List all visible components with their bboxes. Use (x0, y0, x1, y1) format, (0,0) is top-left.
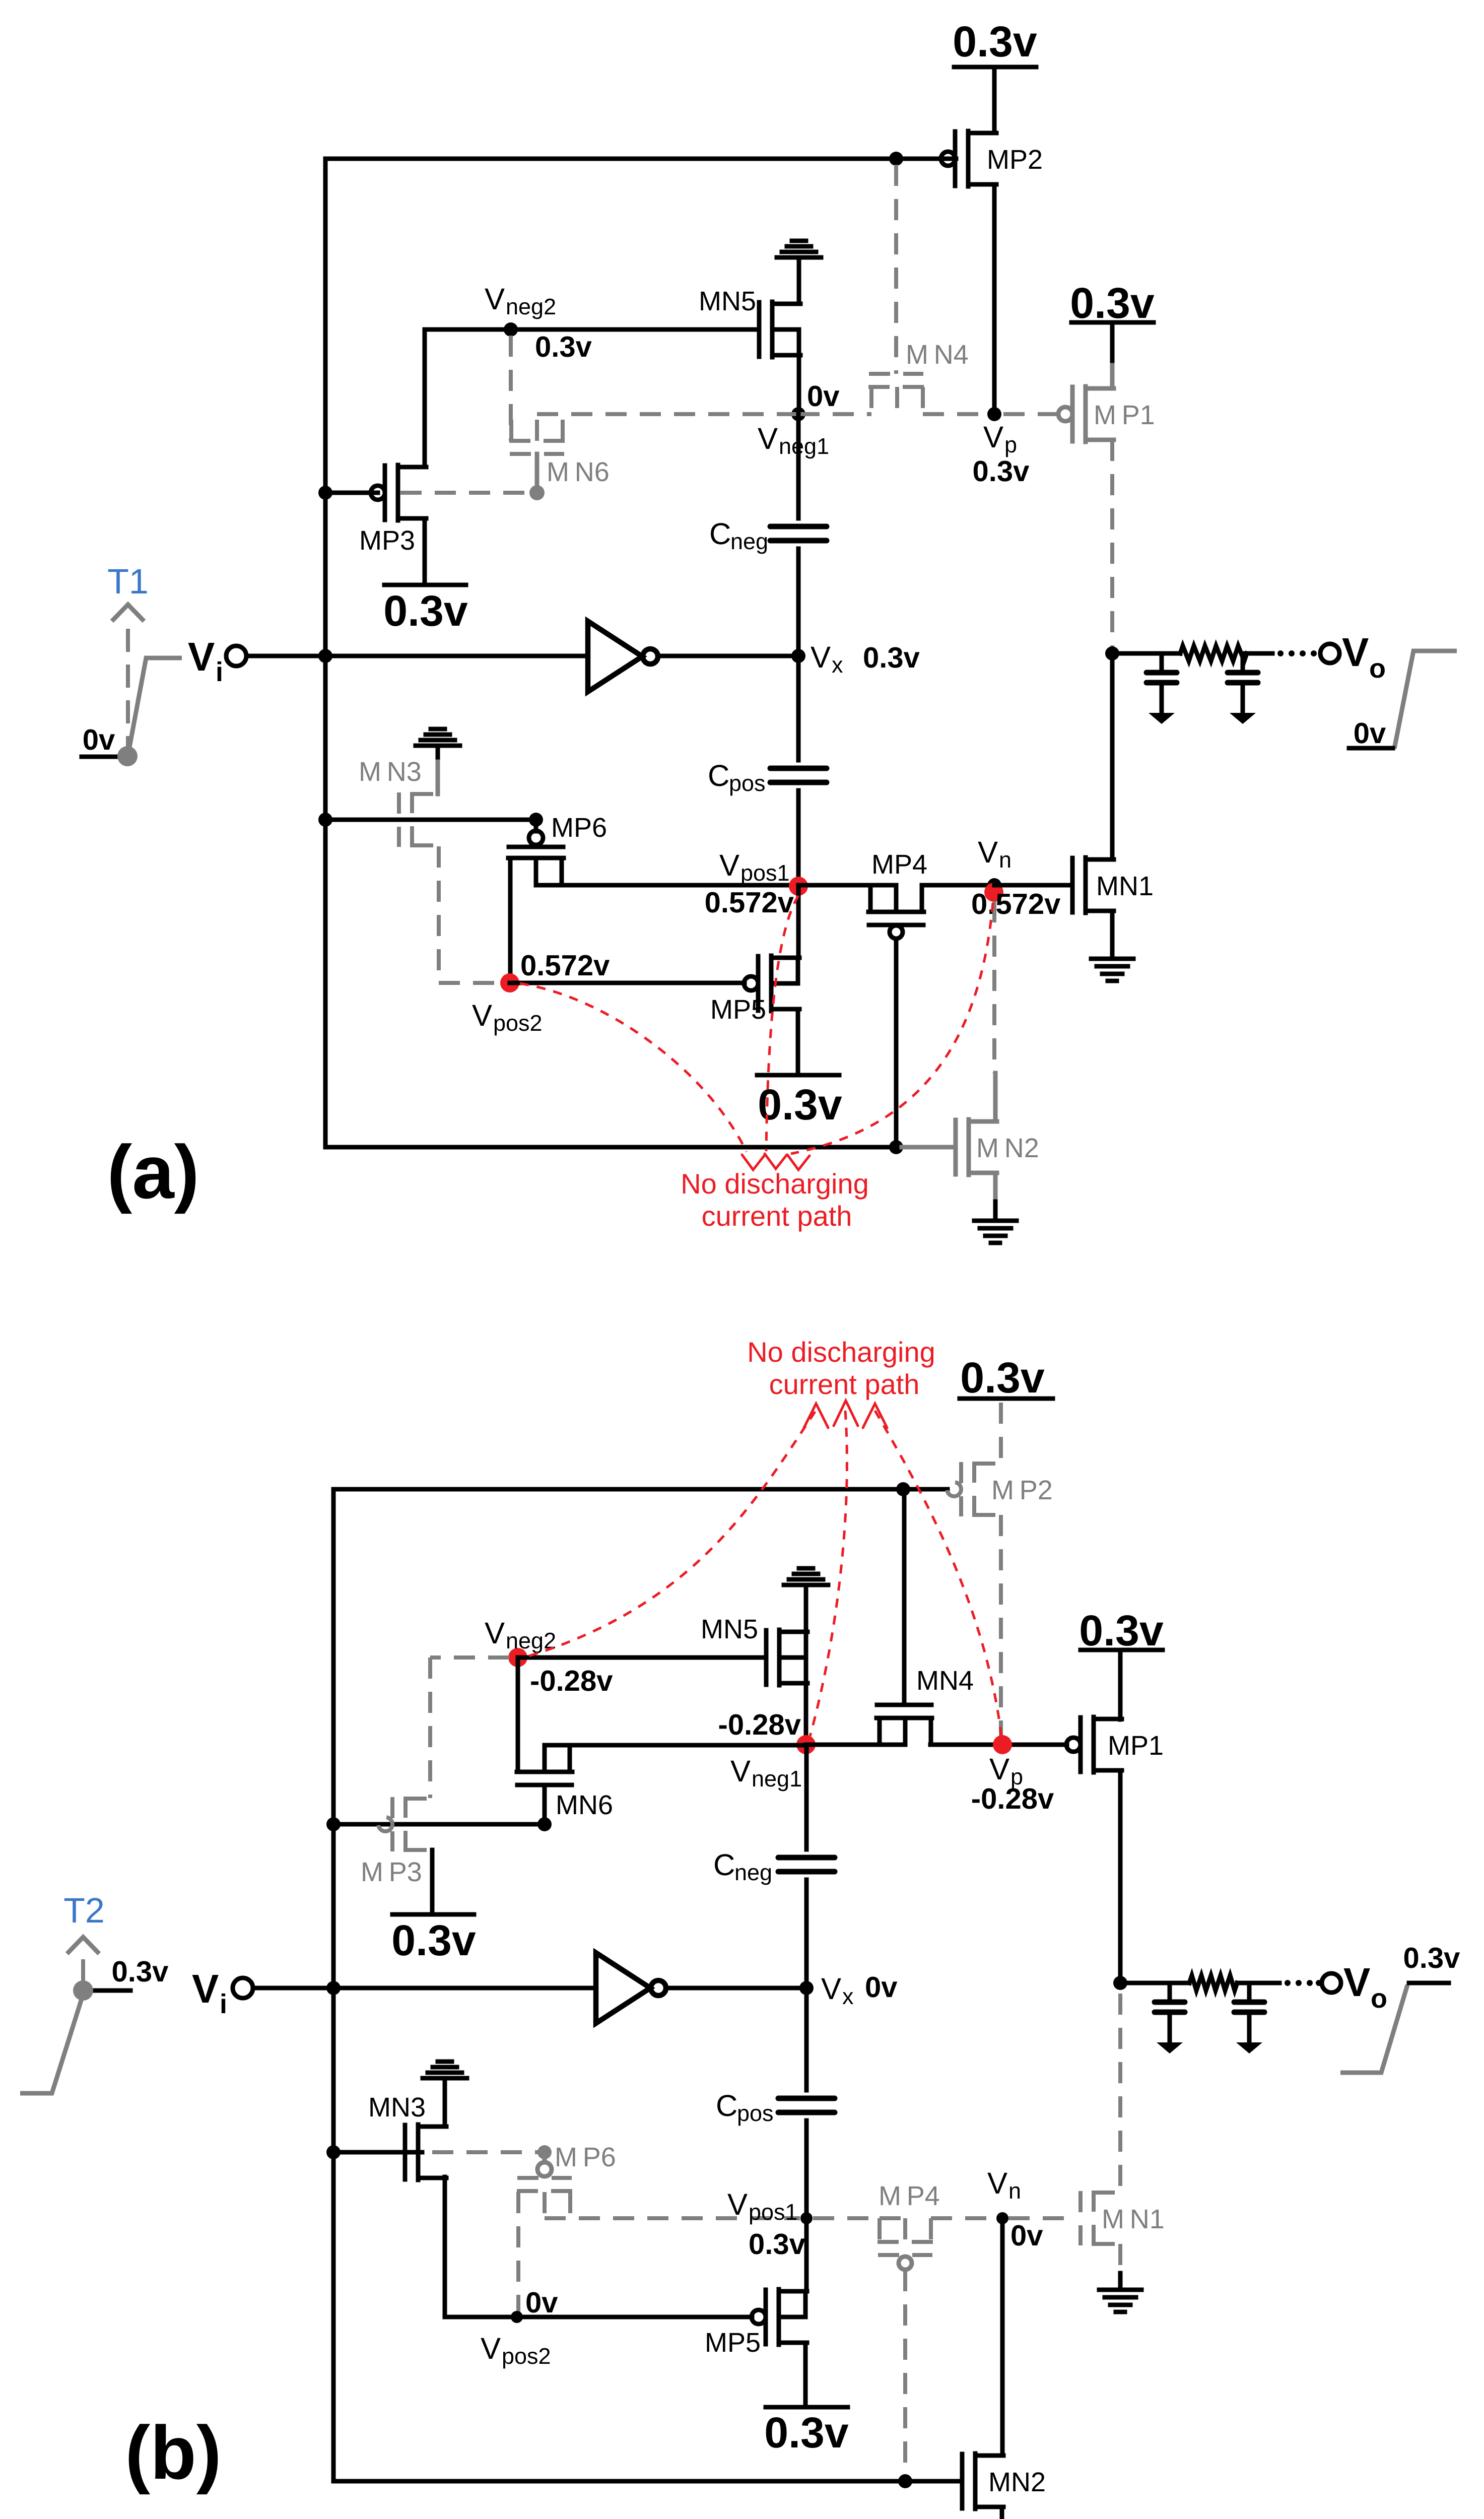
wire dashed Vneg2 down to MP3 (b) (428, 1658, 432, 1798)
svg-text:MP4: MP4 (871, 849, 927, 880)
svg-text:M P3: M P3 (361, 1857, 422, 1887)
node MP4 gate junction (a) (889, 1140, 903, 1154)
svg-text:MP6: MP6 (551, 813, 607, 843)
wire MP2 drain to Vp (a) (992, 184, 997, 414)
terminal Vo (a) (1320, 644, 1339, 663)
capacitor Cneg (b) (778, 1858, 835, 1872)
svg-text:V: V (987, 2166, 1007, 2200)
wire bottom rail (a) (325, 1145, 896, 1150)
svg-text:(b): (b) (125, 2410, 222, 2495)
wire Vneg1 rail left (b) (546, 1743, 806, 1748)
transistor MP2 (a) (941, 131, 996, 186)
svg-text:C: C (713, 1848, 735, 1882)
svg-text:T1: T1 (107, 562, 149, 601)
node Vn red (a) (984, 883, 1003, 902)
wire MN6 gate stub (a) (535, 454, 539, 486)
svg-text:0.572v: 0.572v (971, 888, 1060, 920)
wire gate rail MN3-MP6 (a) (325, 818, 536, 822)
wire MN2 source gray (a) (993, 1173, 998, 1202)
figure (a) (82, 18, 1457, 1243)
node Vp (a) (987, 407, 1001, 421)
svg-text:-0.28v: -0.28v (530, 1665, 613, 1697)
transistor MP4 (a) (868, 885, 924, 939)
wire Vneg1 to Cneg (b) (804, 1745, 809, 1849)
wire Vx to Cpos (a) (796, 656, 801, 760)
svg-text:0.3v: 0.3v (535, 330, 592, 363)
ground above MN3 (b) (423, 2062, 467, 2078)
svg-text:V: V (989, 1752, 1009, 1786)
wire bottom rail (b) (333, 2479, 962, 2484)
input waveform (b) (20, 1993, 84, 2093)
svg-text:V: V (730, 1754, 751, 1788)
node Vx (a) (791, 649, 805, 663)
transistor MN5 (b) (766, 1630, 807, 1685)
node MN3 gate junction (b) (326, 2145, 341, 2159)
node input start (a) (117, 746, 138, 766)
ground MN1 (b) (1099, 2290, 1141, 2312)
figure (b) (20, 1336, 1460, 2519)
svg-text:M N6: M N6 (547, 457, 610, 487)
wire Vi to inverter (a) (247, 654, 587, 658)
svg-text:0v: 0v (807, 380, 840, 413)
svg-text:0.3v: 0.3v (383, 587, 468, 635)
output waveform (a) (1394, 651, 1457, 749)
terminal Vi (b) (233, 1978, 253, 1998)
wire MP3 gate (a) (325, 491, 378, 495)
svg-text:V: V (811, 640, 831, 674)
node output (a) (1105, 646, 1119, 660)
wire dashed gate rail to MP6 (b) (432, 2150, 538, 2154)
svg-text:0.572v: 0.572v (520, 949, 610, 982)
svg-text:0v: 0v (865, 1971, 898, 2004)
wire MN1 source black (b) (1118, 2273, 1123, 2289)
capacitor Cpos (a) (770, 768, 827, 782)
wire 0v output level (a) (1349, 746, 1393, 751)
terminal Vo (b) (1322, 1973, 1341, 1993)
node Vi junction (b) (326, 1981, 341, 1995)
svg-text:0.3v: 0.3v (391, 1916, 476, 1965)
wire Vneg2 down to MN6 (b) (516, 1658, 520, 1772)
svg-text:0.3v: 0.3v (960, 1354, 1045, 1402)
wire resistor to dots (a) (1247, 651, 1272, 656)
svg-text:0.3v: 0.3v (973, 455, 1030, 488)
svg-text:0.3v: 0.3v (758, 1081, 842, 1129)
svg-text:MN6: MN6 (556, 1790, 613, 1820)
power 0.3v supply MP3 (b) (392, 1912, 474, 1917)
transistor MP6 (b) (517, 2158, 572, 2313)
svg-text:M P6: M P6 (555, 2142, 616, 2172)
wire dashed MP4 to Vn (b) (931, 2216, 996, 2220)
node MP6 gate (a) (529, 813, 543, 827)
svg-text:pos2: pos2 (493, 1010, 543, 1036)
node Vneg2 (a) (504, 322, 518, 337)
wire inverter out to Vx (b) (666, 1986, 806, 1991)
svg-text:M N4: M N4 (906, 340, 969, 370)
capacitor C2 to ground (a) (1228, 653, 1258, 724)
svg-text:V: V (472, 999, 492, 1032)
svg-text:pos: pos (729, 770, 766, 796)
wire dashed Vpos1 rail from MP6 (b) (545, 2216, 800, 2220)
svg-text:V: V (719, 848, 739, 882)
node MN3 gate junction (a) (318, 813, 332, 827)
node Vpos1 (b) (800, 2212, 813, 2224)
transistor MP3 (b) (378, 1797, 434, 1852)
wire inverter out to Vx (a) (658, 654, 798, 658)
transistor MN1 (a) (1072, 857, 1114, 913)
wire dashed MN4 gate (a) (894, 165, 898, 374)
wire Vneg2 to MN5 gate (b) (518, 1655, 766, 1660)
svg-text:MN5: MN5 (701, 1614, 758, 1644)
wire Vpos1 rail from MP6 (a) (536, 883, 798, 888)
ground MN1 (a) (1091, 959, 1133, 981)
node Vpos1 red (a) (789, 877, 808, 896)
node Vi junction (a) (318, 649, 332, 663)
capacitor C2 to ground (b) (1234, 1983, 1264, 2053)
svg-text:pos1: pos1 (749, 2199, 798, 2225)
dotted continuation (b) (1285, 1980, 1322, 1986)
wire MN3 drain-ground black (a) (436, 747, 440, 762)
wire Vneg2 left (a) (425, 327, 511, 332)
svg-text:V: V (192, 1966, 219, 2011)
wire dashed MP2 drain to Vp (b) (999, 1515, 1003, 1741)
wire dashed MN1 drain up (b) (1118, 1994, 1122, 2193)
svg-text:0.3v: 0.3v (1403, 1942, 1460, 1974)
dotted continuation (a) (1277, 650, 1317, 656)
svg-text:i: i (220, 1989, 227, 2019)
svg-text:x: x (832, 652, 843, 678)
node Vn junction (a) (987, 878, 1001, 892)
wire dashed MP1 gate (a) (1003, 412, 1059, 416)
power 0.3v supply MP5 (b) (766, 2405, 848, 2410)
wire MP2 gate (a) (941, 157, 956, 161)
wire Vn to MN1 gate (a) (994, 883, 1072, 888)
svg-text:MP3: MP3 (359, 525, 415, 556)
transistor MN2 (a) (956, 1119, 997, 1175)
wire MP1 supply stub gray (a) (1110, 365, 1115, 388)
wire Cpos to Vpos1 (a) (796, 790, 801, 885)
capacitor C1 to ground (b) (1155, 1983, 1185, 2053)
wire Vx to Cpos (b) (804, 1988, 809, 2090)
node output (b) (1113, 1976, 1127, 1990)
wire Vneg1 rail right (b) (806, 1743, 879, 1747)
wire Cpos to Vpos1 (b) (804, 2120, 809, 2218)
svg-text:V: V (758, 422, 778, 455)
node Vpos2 red (a) (500, 973, 519, 992)
wire MP3 source down (a) (423, 518, 427, 585)
annotation red arrowheads (a) (742, 1155, 764, 1170)
svg-text:MP5: MP5 (705, 2328, 761, 2358)
svg-text:0.3v: 0.3v (112, 1955, 169, 1988)
inverter (b) (596, 1953, 650, 2023)
svg-text:M P1: M P1 (1094, 400, 1155, 430)
svg-text:C: C (716, 2089, 737, 2123)
svg-text:No discharging: No discharging (681, 1168, 869, 1200)
wire gate rail left-MN6 (b) (333, 1822, 545, 1827)
transistor MN6 (a) (509, 414, 565, 454)
annotation red curve to Vneg2 (b) (529, 1412, 815, 1656)
resistor R load (a) (1180, 646, 1247, 661)
svg-text:n: n (999, 847, 1011, 873)
annotation red curve from Vpos1 (a) (766, 896, 798, 1151)
svg-text:0.3v: 0.3v (953, 18, 1037, 66)
wire output rail (b) (1120, 1981, 1189, 1985)
svg-text:neg: neg (734, 1860, 772, 1885)
svg-text:MN5: MN5 (699, 286, 756, 316)
wire dashed MP2 supply (b) (999, 1403, 1003, 1463)
transistor MP2 (b) (947, 1462, 1002, 1517)
svg-text:(a): (a) (107, 1130, 199, 1214)
wire MP5 source down (a) (796, 1009, 800, 1075)
svg-text:neg: neg (730, 528, 768, 554)
node Vneg1 (a) (791, 407, 805, 421)
svg-text:MP5: MP5 (710, 995, 766, 1025)
transistor MP5 (b) (752, 2289, 807, 2345)
transistor MP1 (a) (1058, 386, 1114, 442)
wire MP1 supply stub (b) (1118, 1650, 1123, 1719)
transistor MN3 (b) (405, 2125, 446, 2180)
transistor MN1 (b) (1081, 2191, 1122, 2246)
wire MP4 to Vn (a) (922, 883, 994, 888)
annotation red curve to Vp (b) (875, 1411, 1001, 1736)
output waveform (b) (1340, 1985, 1407, 2073)
resistor R load (b) (1189, 1975, 1237, 1991)
node MP3 gate junction (b) (326, 1817, 341, 1831)
node MN6 gate (b) (537, 1817, 552, 1831)
power 0.3v supply MP3 (a) (384, 583, 466, 587)
wire MP2 drain-supply (a) (992, 67, 997, 133)
power 0.3v supply MP5 (a) (757, 1073, 839, 1078)
svg-text:p: p (1004, 432, 1017, 457)
svg-text:MN2: MN2 (988, 2467, 1046, 2497)
svg-text:0v: 0v (525, 2286, 558, 2319)
wire 0v level mark (a) (82, 755, 129, 759)
wire rail MN4-Vp (b) (930, 1743, 1001, 1747)
svg-text:V: V (978, 835, 998, 869)
svg-text:neg2: neg2 (506, 294, 556, 319)
input waveform (a) (128, 658, 182, 753)
transistor MP3 (a) (371, 465, 426, 520)
ground above MN5 (a) (777, 241, 821, 257)
wire MP5 drain up (a) (796, 885, 801, 958)
wire dashed MP1 drain down (a) (1110, 440, 1114, 647)
inverter (a) (588, 621, 642, 692)
node MP3 gate junction (a) (318, 486, 332, 500)
annotation red arrowheads (b) (804, 1404, 828, 1428)
wire left rail (b) (331, 1489, 336, 2481)
wire MN3 drain-ground (b) (443, 2080, 447, 2127)
svg-text:M P2: M P2 (991, 1475, 1053, 1505)
wire output rail (a) (1112, 651, 1180, 656)
wire MN3 drain-ground gray (a) (436, 762, 440, 794)
svg-text:MN1: MN1 (1096, 871, 1154, 901)
wire MP3 source down black (b) (430, 1850, 435, 1914)
capacitor Cneg (a) (770, 526, 827, 541)
svg-text:o: o (1369, 653, 1386, 684)
svg-text:i: i (216, 657, 223, 687)
wire gate rail to MN3 (b) (333, 2150, 422, 2155)
arrow T2 (b) (67, 1937, 99, 1954)
node Vp red (b) (993, 1735, 1012, 1754)
wire dashed MN1 source down (b) (1118, 2244, 1122, 2273)
wire MN2 gate stub (a) (902, 1145, 956, 1150)
wire MP1 supply stub black (a) (1110, 322, 1115, 365)
ground above MN5 (b) (784, 1568, 828, 1585)
svg-text:M P4: M P4 (879, 2181, 940, 2211)
transistor MN6 (b) (517, 1745, 572, 1785)
wire MP4 gate down (a) (894, 939, 899, 1147)
wire MN5 drain-ground (a) (797, 259, 801, 304)
svg-text:current path: current path (702, 1200, 852, 1232)
wire MN2 source down (b) (1000, 2507, 1004, 2519)
svg-text:neg1: neg1 (779, 433, 829, 459)
wire top rail (a) (325, 157, 941, 161)
wire 0.3v output level (b) (1409, 1981, 1449, 1985)
wire dashed Vneg2 left (b) (430, 1655, 509, 1660)
node Vneg2 red (b) (508, 1648, 527, 1667)
wire MN5 source to Vneg1 (a) (797, 355, 801, 414)
wire Cneg to Vx (a) (796, 549, 801, 656)
wire MP1 gate (b) (1002, 1743, 1067, 1747)
wire dashed MN6 gate to MP3 (a) (400, 491, 530, 495)
svg-text:x: x (842, 1983, 854, 2009)
wire MN3 source down (b) (443, 2177, 447, 2317)
wire dashed Vpos1 to MP4 (b) (813, 2216, 879, 2220)
svg-text:V: V (1343, 1960, 1370, 2005)
wire Vpos2 to MP5 gate (a) (510, 981, 745, 985)
wire Cneg to Vx (b) (804, 1880, 809, 1988)
svg-text:pos: pos (737, 2100, 774, 2126)
wire dashed Vneg1 rail right (a) (798, 412, 871, 416)
svg-text:No discharging: No discharging (747, 1336, 935, 1368)
svg-text:M N1: M N1 (1102, 2204, 1165, 2234)
svg-text:current path: current path (769, 1368, 920, 1400)
terminal Vi (a) (226, 646, 246, 666)
svg-text:0.3v: 0.3v (764, 2409, 849, 2457)
wire Vn down to MN2 (b) (1000, 2218, 1005, 2454)
wire dashed MN3 to Vpos2 (a) (439, 981, 501, 985)
svg-text:o: o (1371, 1983, 1387, 2014)
wire Vpos1 to MP4 (a) (798, 883, 870, 888)
wire MP1 drain down (b) (1118, 1770, 1123, 1983)
transistor MP5 (a) (744, 956, 799, 1011)
svg-text:M N3: M N3 (359, 757, 422, 787)
svg-text:C: C (708, 759, 729, 792)
svg-text:V: V (485, 1616, 505, 1650)
node Vneg1 red (b) (796, 1735, 816, 1754)
wire MN2 source black (a) (993, 1202, 998, 1220)
wire resistor to dots (b) (1237, 1981, 1279, 1985)
wire dashed Vneg2 to MN6 (a) (509, 336, 513, 441)
svg-text:V: V (481, 2332, 501, 2365)
svg-text:neg1: neg1 (752, 1766, 802, 1792)
svg-text:MN3: MN3 (368, 2092, 426, 2123)
svg-text:V: V (188, 634, 215, 679)
wire Vneg2 to MN5 gate (a) (511, 327, 759, 332)
node Vx (b) (799, 1981, 814, 1995)
svg-text:V: V (485, 282, 505, 316)
svg-text:C: C (709, 517, 731, 551)
transistor MN3 (a) (399, 792, 440, 847)
wire dashed MN3 source down (a) (437, 846, 441, 983)
annotation red curve from Vn (a) (791, 903, 993, 1154)
transistor MP6 (a) (508, 827, 564, 983)
node MP4 gate junction (b) (898, 2474, 912, 2488)
svg-text:MN4: MN4 (916, 1666, 974, 1696)
wire MP5 source down (b) (803, 2343, 808, 2407)
arrow T1 (a) (112, 605, 144, 621)
transistor MN4 (a) (868, 374, 924, 414)
wire MN6 gate stub (b) (543, 1785, 547, 1818)
svg-text:pos1: pos1 (740, 860, 790, 886)
wire dashed Vn to MN1 gate (b) (1008, 2216, 1069, 2220)
wire MN5 source to Vneg1 (b) (804, 1683, 808, 1745)
svg-text:0.3v: 0.3v (749, 2228, 805, 2261)
svg-text:V: V (1342, 630, 1369, 675)
node MP2 gate junction (b) (896, 1482, 910, 1496)
svg-text:MP2: MP2 (987, 145, 1043, 175)
wire Vneg1 to Cneg (a) (796, 414, 801, 518)
wire dashed rail MN4-Vp (a) (923, 412, 994, 416)
svg-text:0v: 0v (1010, 2219, 1043, 2252)
wire left rail (a) (323, 159, 328, 1147)
wire MN1 source down (a) (1110, 911, 1115, 958)
svg-text:M N2: M N2 (976, 1133, 1039, 1163)
wire Vi to inverter (b) (253, 1986, 595, 1991)
svg-text:pos2: pos2 (502, 2343, 551, 2369)
svg-text:0v: 0v (83, 723, 115, 756)
svg-text:V: V (727, 2187, 748, 2221)
svg-text:0v: 0v (1354, 717, 1386, 750)
wire MN1 drain up (a) (1110, 653, 1115, 859)
capacitor C1 to ground (a) (1146, 653, 1177, 724)
svg-text:-0.28v: -0.28v (971, 1782, 1054, 1815)
wire Vneg2 down to MP3 (a) (423, 329, 427, 467)
wire top rail (b) (333, 1487, 948, 1492)
node MP6 gate (b) (537, 2145, 552, 2159)
svg-text:n: n (1008, 2178, 1021, 2204)
svg-text:T2: T2 (63, 1891, 105, 1930)
svg-text:MP1: MP1 (1108, 1731, 1164, 1761)
wire dashed MP4 gate down (b) (903, 2270, 907, 2477)
node input start (b) (73, 1980, 93, 2001)
wire MN3 to Vpos2 (b) (445, 2315, 517, 2319)
capacitor Cpos (b) (778, 2098, 835, 2112)
wire MN2 drain gray (a) (993, 1073, 998, 1121)
wire Vpos2 to MP5 gate (b) (517, 2315, 752, 2319)
wire MN5 drain-ground (b) (804, 1586, 808, 1633)
node MN6 gate (a) (529, 485, 545, 500)
wire 0.3v level mark (b) (86, 1988, 130, 1993)
ground MN2 (a) (974, 1221, 1017, 1243)
ground above MN3 (a) (416, 729, 460, 746)
svg-text:0.572v: 0.572v (705, 886, 794, 919)
transistor MN4 (b) (876, 1705, 932, 1745)
transistor MP1 (b) (1066, 1717, 1122, 1772)
transistor MN5 (a) (759, 302, 800, 357)
svg-text:0.3v: 0.3v (863, 641, 920, 674)
node MP2 gate junction (a) (889, 152, 903, 166)
annotation red curve from Vpos2 (a) (520, 983, 747, 1152)
wire MN4 gate down (b) (902, 1489, 907, 1705)
svg-text:V: V (821, 1972, 841, 2006)
node Vn (b) (996, 2212, 1008, 2224)
svg-text:V: V (983, 420, 1003, 454)
svg-text:-0.28v: -0.28v (718, 1708, 801, 1741)
node Vpos2 (b) (511, 2311, 523, 2323)
transistor MN2 (b) (962, 2454, 1003, 2509)
wire dashed Vn down (a) (992, 901, 996, 1073)
wire dashed Vneg1 rail left (a) (537, 412, 798, 416)
